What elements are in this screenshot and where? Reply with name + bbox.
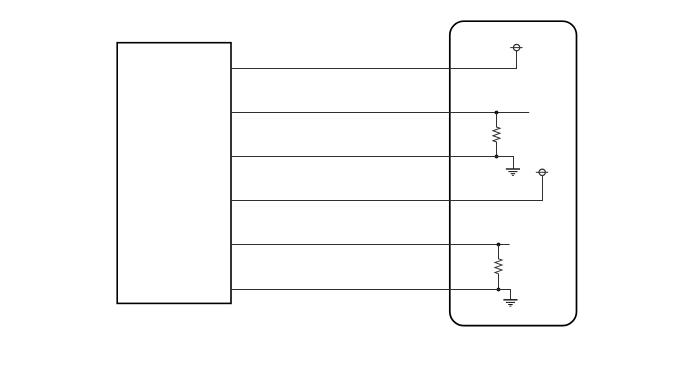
junction dot node C: [497, 243, 501, 247]
junction dot node A: [495, 111, 499, 115]
wire 6: [231, 290, 511, 300]
wire 3: [231, 157, 514, 169]
junction dot node D: [497, 288, 501, 292]
junction dot node B: [495, 155, 499, 159]
wire 5: [231, 244, 510, 246]
connector outline J1: [450, 21, 577, 325]
wire 2: [231, 112, 529, 114]
resistor R1: [493, 113, 500, 157]
ground G1: [506, 169, 520, 175]
wire 4: [231, 176, 543, 201]
resistor R2: [495, 245, 502, 290]
IC box U1: [117, 43, 231, 304]
wire 1: [231, 51, 517, 69]
port P2: [536, 169, 548, 175]
port P1: [510, 44, 522, 50]
ground G2: [503, 300, 517, 306]
